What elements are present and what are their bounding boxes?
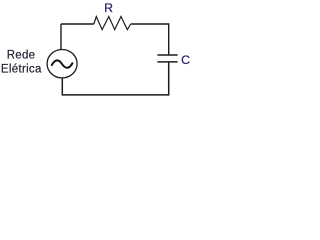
svg-text:Elétrica: Elétrica	[1, 63, 42, 75]
svg-text:C: C	[181, 53, 190, 67]
svg-text:Rede: Rede	[7, 49, 36, 61]
svg-text:R: R	[104, 1, 113, 15]
